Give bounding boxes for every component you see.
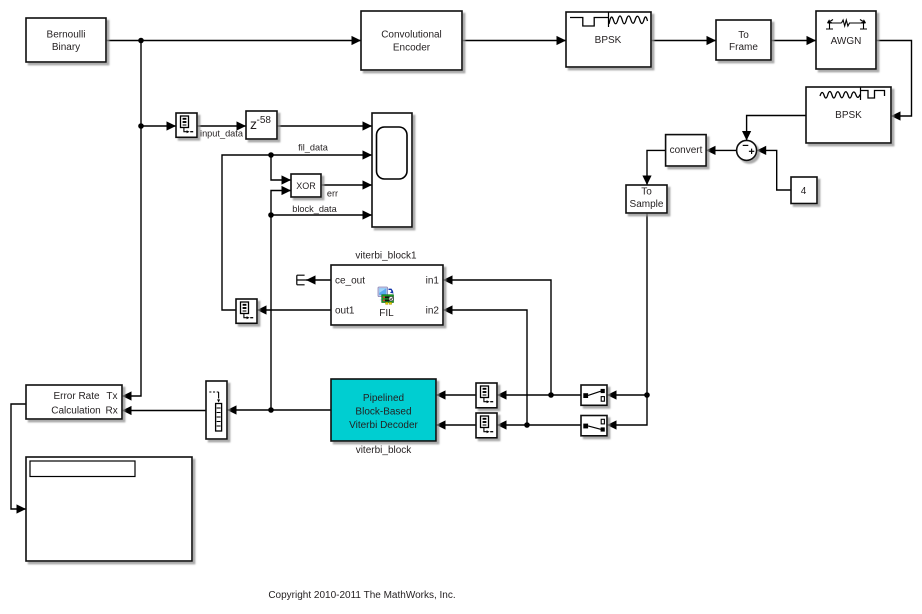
svg-text:fil_data: fil_data	[298, 142, 329, 152]
svg-text:err: err	[327, 188, 338, 198]
svg-text:Error Rate: Error Rate	[53, 391, 100, 402]
svg-text:block_data: block_data	[292, 204, 337, 214]
svg-text:Binary: Binary	[52, 42, 80, 53]
svg-text:AWGN: AWGN	[831, 36, 862, 47]
svg-text:ce_out: ce_out	[335, 275, 365, 286]
svg-text:BPSK: BPSK	[835, 110, 862, 121]
svg-text:To: To	[738, 30, 749, 41]
svg-text:convert: convert	[670, 145, 703, 156]
svg-text:Rx: Rx	[105, 406, 117, 417]
svg-text:Calculation: Calculation	[51, 406, 100, 417]
svg-text:To: To	[641, 187, 652, 198]
svg-text:input_data: input_data	[200, 128, 244, 138]
svg-text:Frame: Frame	[729, 42, 758, 53]
svg-text:4: 4	[801, 186, 807, 197]
svg-text:Copyright 2010-2011 The MathWo: Copyright 2010-2011 The MathWorks, Inc.	[268, 590, 455, 601]
svg-text:FIL: FIL	[379, 308, 394, 319]
svg-text:BPSK: BPSK	[595, 35, 622, 46]
svg-text:Encoder: Encoder	[393, 43, 431, 54]
svg-text:XOR: XOR	[296, 181, 316, 191]
svg-text:in1: in1	[426, 275, 440, 286]
svg-text:Sample: Sample	[630, 199, 664, 210]
svg-text:Viterbi Decoder: Viterbi Decoder	[349, 420, 418, 431]
svg-text:out1: out1	[335, 306, 355, 317]
svg-text:viterbi_block: viterbi_block	[356, 445, 413, 456]
svg-text:viterbi_block1: viterbi_block1	[355, 251, 417, 262]
svg-text:Bernoulli: Bernoulli	[47, 29, 86, 40]
svg-text:in2: in2	[426, 306, 440, 317]
svg-text:Convolutional: Convolutional	[381, 30, 442, 41]
svg-text:Pipelined: Pipelined	[363, 393, 404, 404]
svg-text:Block-Based: Block-Based	[355, 407, 411, 418]
svg-text:-58: -58	[257, 115, 272, 126]
svg-text:Tx: Tx	[106, 391, 117, 402]
